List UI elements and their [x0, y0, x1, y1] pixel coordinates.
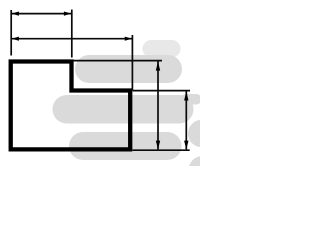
- extension line left (x=11.2): [10, 10, 12, 56]
- dim4 up arrow: [184, 92, 188, 101]
- dimension line 4 (step height): [185, 92, 187, 150]
- dimension line 3 (overall height): [157, 62, 159, 150]
- watermark pill third: [53, 95, 194, 124]
- watermark pill second: [75, 55, 182, 83]
- dim3 down arrow: [156, 141, 160, 150]
- watermark right edge piece middle: [188, 120, 214, 147]
- dimension line 1 (step width): [11, 13, 71, 15]
- extension line right (x=132.4): [131, 35, 133, 90]
- watermark pill top: [143, 40, 181, 58]
- dim1 left arrow: [11, 12, 19, 16]
- extension line mid right (y=90.6): [133, 90, 191, 92]
- dim2 right arrow: [125, 37, 133, 41]
- extension line top right (y=60.6): [74, 60, 163, 62]
- dim4 down arrow: [184, 141, 188, 150]
- part outline (step block): [11, 62, 131, 150]
- dim3 up arrow: [156, 62, 160, 71]
- watermark pill fourth: [69, 132, 182, 160]
- watermark right edge piece lower: [189, 156, 217, 184]
- dimension line 2 (overall width): [11, 38, 132, 40]
- dim1 right arrow: [64, 12, 72, 16]
- extension line bottom right (y=150.2): [133, 149, 190, 151]
- dim2 left arrow: [11, 37, 19, 41]
- watermark right edge piece upper: [181, 94, 202, 105]
- extension line step (x=71.8): [71, 10, 73, 58]
